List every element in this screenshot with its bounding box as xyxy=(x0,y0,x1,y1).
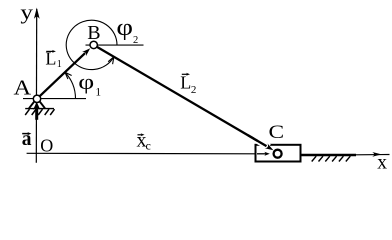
svg-text:x: x xyxy=(377,152,387,173)
svg-text:A: A xyxy=(14,76,32,99)
svg-text:1: 1 xyxy=(95,87,101,99)
svg-text:B: B xyxy=(87,22,100,44)
svg-text:1: 1 xyxy=(57,59,62,70)
svg-text:C: C xyxy=(269,121,285,143)
svg-text:c: c xyxy=(146,138,151,152)
svg-text:2: 2 xyxy=(191,84,197,96)
svg-text:O: O xyxy=(40,136,53,156)
svg-text:2: 2 xyxy=(133,35,138,46)
svg-text:y: y xyxy=(20,1,33,25)
svg-text:L: L xyxy=(180,73,191,93)
svg-text:φ: φ xyxy=(116,13,133,40)
svg-text:φ: φ xyxy=(78,70,94,94)
svg-text:a: a xyxy=(22,129,32,150)
